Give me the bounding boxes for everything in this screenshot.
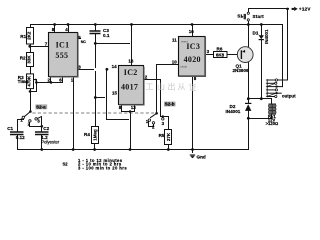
svg-text:output: output <box>282 93 296 98</box>
svg-text:R4: R4 <box>84 132 90 137</box>
svg-text:4020: 4020 <box>184 55 201 64</box>
svg-text:Start: Start <box>253 14 265 19</box>
svg-text:Gnd: Gnd <box>197 154 206 159</box>
svg-text:R2: R2 <box>20 55 26 60</box>
svg-text:4017: 4017 <box>121 82 138 91</box>
svg-text:3 - 100 min to 20 hrs: 3 - 100 min to 20 hrs <box>78 166 127 171</box>
svg-text:S2: S2 <box>63 162 69 167</box>
svg-text:16: 16 <box>128 58 134 63</box>
svg-text:11: 11 <box>172 37 177 42</box>
svg-text:reset: reset <box>181 40 188 44</box>
svg-text:1Meg: 1Meg <box>92 129 97 141</box>
svg-text:0.12: 0.12 <box>16 135 25 140</box>
svg-text:R5: R5 <box>159 133 165 138</box>
svg-text:Polyester: Polyester <box>41 139 59 144</box>
svg-text:D1: D1 <box>253 31 259 36</box>
svg-text:IC1: IC1 <box>56 41 70 50</box>
svg-text:山: 山 <box>157 82 165 92</box>
svg-text:Time: Time <box>18 79 29 84</box>
svg-text:々: 々 <box>139 87 143 93</box>
svg-text:2N3906: 2N3906 <box>233 68 250 73</box>
svg-text:2K2: 2K2 <box>27 31 32 40</box>
svg-text:S2-b: S2-b <box>165 102 175 107</box>
svg-text:555: 555 <box>55 51 68 60</box>
svg-text:IN4001: IN4001 <box>226 109 241 114</box>
svg-text:33K: 33K <box>27 55 32 64</box>
svg-text:10: 10 <box>172 60 178 65</box>
svg-text:27K: 27K <box>166 132 171 141</box>
svg-text:14: 14 <box>112 64 118 69</box>
svg-text:6K8: 6K8 <box>216 53 225 58</box>
svg-text:S2-a: S2-a <box>36 105 46 110</box>
svg-text:工: 工 <box>146 83 154 92</box>
svg-text:C1: C1 <box>7 126 13 131</box>
svg-text:C2: C2 <box>43 126 49 131</box>
svg-text:出: 出 <box>168 82 176 92</box>
svg-text:13: 13 <box>131 105 137 110</box>
svg-text:IC2: IC2 <box>124 68 138 77</box>
svg-text:IC3: IC3 <box>186 42 200 51</box>
svg-text:0.1: 0.1 <box>103 33 110 38</box>
svg-text:证: 证 <box>189 83 197 92</box>
svg-text:15: 15 <box>112 91 118 96</box>
svg-text:16: 16 <box>189 29 195 34</box>
svg-text:+12V: +12V <box>299 7 312 12</box>
svg-text:从: 从 <box>178 83 186 92</box>
svg-text:R6: R6 <box>217 47 223 52</box>
svg-text:IN4001: IN4001 <box>264 29 269 44</box>
svg-text:clock: clock <box>180 64 187 68</box>
svg-text:R1: R1 <box>20 34 26 39</box>
svg-text:NC: NC <box>81 40 87 44</box>
svg-text:>120Ω: >120Ω <box>266 121 279 126</box>
